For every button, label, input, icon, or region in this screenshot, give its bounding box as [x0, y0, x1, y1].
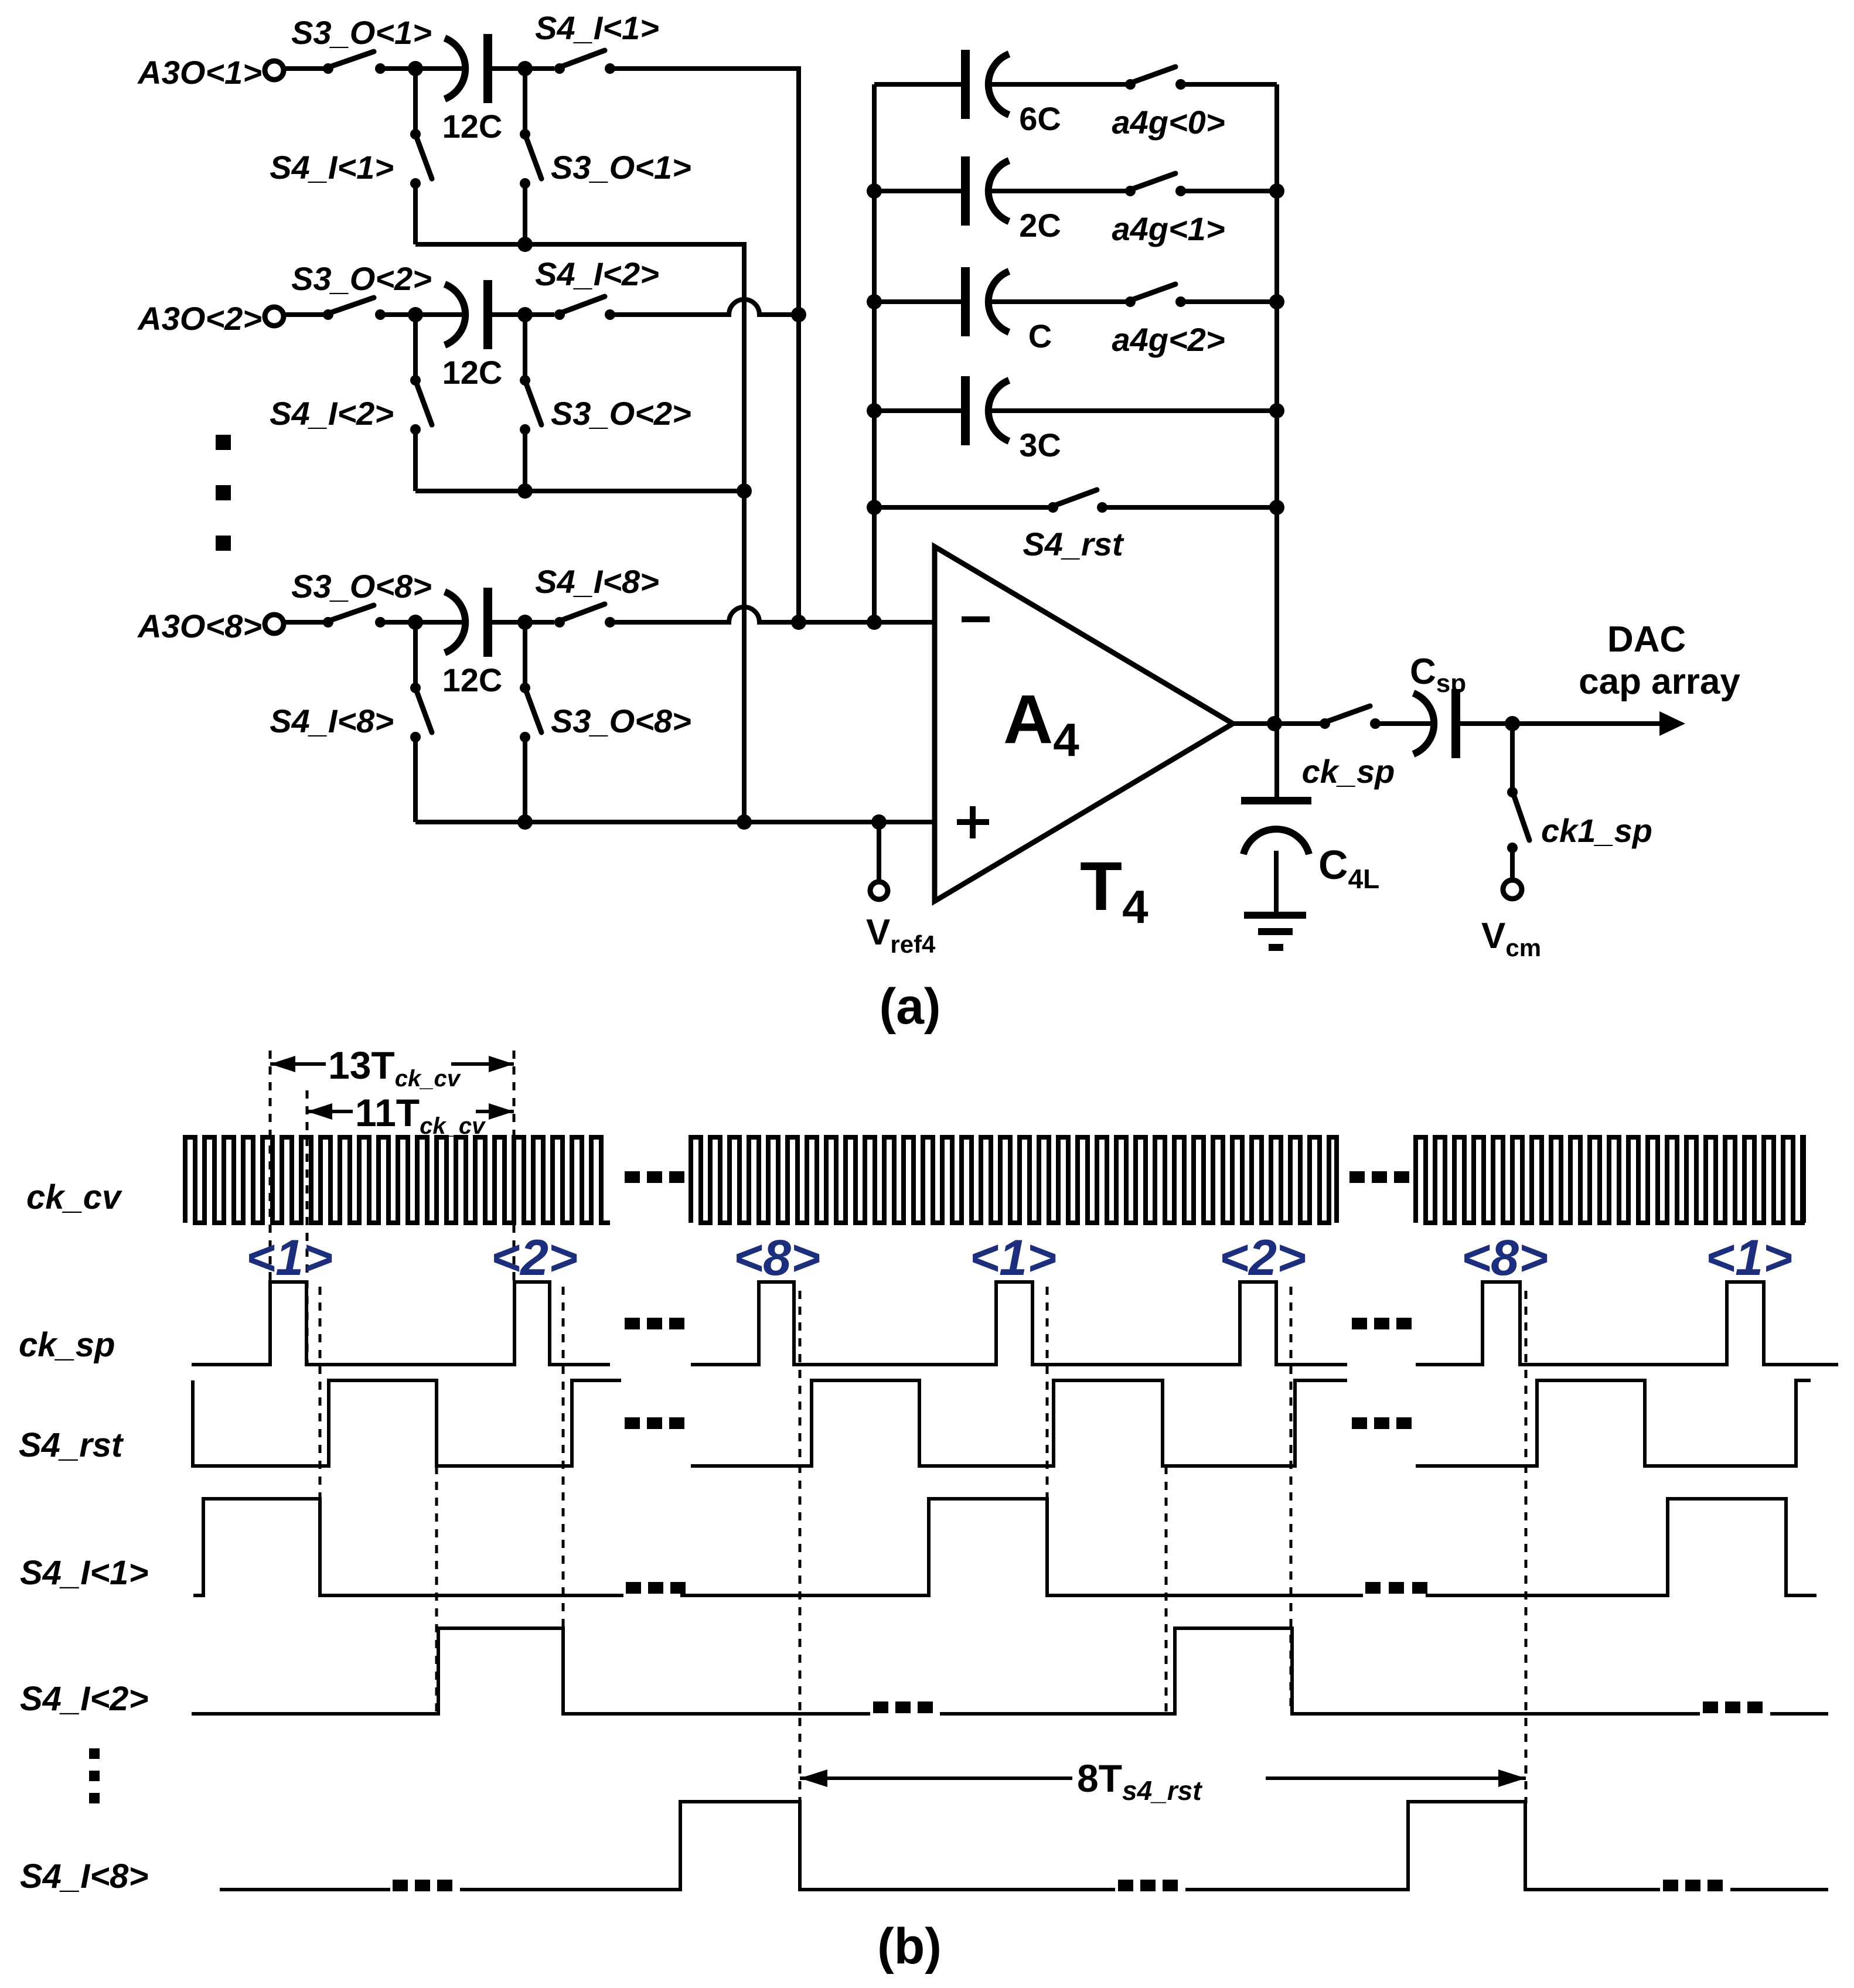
- wire left shunt to bottom: [413, 737, 418, 822]
- wire cap to switch a4g&lt;1&gt;: [991, 189, 1130, 193]
- wire block1 output to vertical bus x=1363 down to inverting bus: [610, 69, 799, 622]
- junction block2 bottom joins x=1270: [737, 483, 752, 499]
- junction bus/block2 output: [791, 307, 806, 322]
- svg-text:ck_sp: ck_sp: [19, 1326, 115, 1364]
- wire switch to Csp: [1375, 721, 1431, 726]
- junction left bus row C: [867, 294, 882, 309]
- svg-text:6C: 6C: [1019, 100, 1061, 137]
- ellipsis ck_cv gap 1: [625, 1171, 684, 1183]
- svg-text:a4g<2>: a4g<2>: [1112, 321, 1225, 358]
- wire S4_I<8> waveform seg3: [1185, 1802, 1660, 1890]
- op-amp A4 (integrator T4): [935, 547, 1233, 933]
- junction right bus row 2C: [1269, 183, 1284, 199]
- dimension arrow 13T_ck_cv: [270, 1044, 514, 1092]
- svg-text:ck1_sp: ck1_sp: [1541, 812, 1652, 849]
- svg-text:S4_I<2>: S4_I<2>: [270, 395, 394, 432]
- svg-text:ck_cv: ck_cv: [26, 1178, 122, 1216]
- ellipsis S4_I<2> gap 2: [1703, 1701, 1763, 1713]
- wire S4_rst waveform seg1: [193, 1380, 621, 1466]
- switch S3_O<2> (series, top): [323, 298, 386, 320]
- capacitor 6C row wire (left): [874, 82, 965, 87]
- wire cap to switch a4g&lt;2&gt;: [991, 299, 1130, 304]
- switch S3_O<2> (shunt right): [520, 375, 541, 435]
- node junction (right plate node): [517, 61, 533, 76]
- switch S4_I<8> (shunt left): [410, 683, 432, 742]
- junction output / right bus: [1267, 716, 1282, 731]
- wire dashed guide x=745: [435, 1466, 438, 1714]
- capacitor 12C: [442, 588, 503, 698]
- svg-text:S3_O<2>: S3_O<2>: [291, 260, 432, 297]
- wire cap-bank left bus: [872, 84, 877, 622]
- svg-text:A3O<8>: A3O<8>: [137, 608, 262, 645]
- wire left shunt branch: [413, 69, 418, 134]
- svg-text:<8>: <8>: [1461, 1230, 1548, 1286]
- node A3O<1> input terminal: [137, 54, 284, 91]
- switch S4_rst: [1048, 490, 1107, 513]
- wire S4_I<2> waveform seg1: [192, 1628, 870, 1714]
- wire Csp to output node: [1460, 721, 1512, 726]
- svg-text:S3_O<8>: S3_O<8>: [551, 703, 691, 739]
- capacitor 2C: [961, 156, 1061, 244]
- label DAC cap array: [1579, 619, 1740, 702]
- wire dashed guide x=524: [306, 1090, 309, 1365]
- ellipsis ck_sp gap 2: [1352, 1318, 1412, 1329]
- junction right bus row C: [1269, 294, 1284, 309]
- wire block1 bottom to vertical x=1270 down to non-inverting wire: [415, 244, 744, 822]
- dimension arrow 11T_ck_cv: [307, 1091, 514, 1139]
- wire S4_I<1> waveform seg2: [680, 1499, 1363, 1595]
- wire switch to node1: [380, 66, 463, 71]
- ellipsis S4_I<2> gap 1: [873, 1701, 933, 1713]
- ellipsis ck_cv gap 2: [1349, 1171, 1409, 1183]
- junction right shunt / bottom wire: [517, 237, 533, 252]
- switch a4g&lt;1&gt;: [1125, 173, 1186, 196]
- junction bus x=1363 / inverting bus: [791, 615, 806, 630]
- wire dashed guide x=1365: [799, 1291, 802, 1803]
- wire S4_rst waveform seg3: [1416, 1380, 1811, 1466]
- switch S3_O<1> (series, top): [323, 52, 386, 74]
- wire dashed guide x=877: [513, 1051, 516, 1282]
- svg-text:S4_I<8>: S4_I<8>: [20, 1857, 148, 1895]
- wire left shunt to bottom: [413, 183, 418, 244]
- svg-text:S3_O<8>: S3_O<8>: [291, 568, 432, 605]
- wire left shunt branch: [413, 315, 418, 380]
- wire cap to switch a4g&lt;0&gt;: [991, 82, 1130, 87]
- wire ck_cv clock waveform band 3: [1416, 1137, 1804, 1223]
- ellipsis vertical dots between S4_I<2> and S4_I<8>: [89, 1748, 100, 1803]
- capacitor 3C: [961, 376, 1061, 463]
- node A3O<8> input terminal: [137, 608, 284, 645]
- switch S4_I<1> (shunt left): [410, 129, 432, 189]
- wire switch to node1: [380, 620, 463, 625]
- svg-text:S3_O<2>: S3_O<2>: [551, 395, 691, 432]
- svg-text:12C: 12C: [442, 108, 503, 145]
- switch S4_I<1> (series, top): [554, 50, 615, 74]
- wire switch to right bus: [1181, 299, 1277, 304]
- capacitor C row wire (left): [874, 299, 965, 304]
- wire ck_cv clock waveform band 2: [691, 1137, 1337, 1223]
- wire ck_sp waveform seg2: [691, 1282, 1347, 1365]
- svg-text:ck_sp: ck_sp: [1302, 753, 1395, 790]
- wire cap to node2: [492, 620, 554, 625]
- svg-text:DAC: DAC: [1607, 619, 1686, 660]
- svg-text:S4_I<2>: S4_I<2>: [20, 1680, 148, 1718]
- junction right bus S4_rst row: [1269, 500, 1284, 515]
- wire dashed guide x=2203: [1290, 1287, 1293, 1714]
- capacitor 6C: [961, 50, 1061, 137]
- capacitor C: [961, 267, 1052, 354]
- wire left shunt branch: [413, 622, 418, 688]
- svg-text:12C: 12C: [442, 354, 503, 391]
- capacitor 2C row wire (left): [874, 189, 965, 193]
- wire ck_cv clock waveform band 1: [185, 1137, 610, 1223]
- svg-text:S4_I<1>: S4_I<1>: [535, 9, 659, 46]
- wire S4_I<1> waveform seg1: [193, 1499, 623, 1595]
- node junction (left plate node): [408, 615, 423, 630]
- switch ck1_sp: [1507, 787, 1529, 853]
- svg-text:S4_I<8>: S4_I<8>: [270, 703, 394, 739]
- node A3O<2> input terminal: [137, 300, 284, 337]
- wire ck_sp waveform seg3: [1416, 1282, 1838, 1365]
- junction left bus row 3C: [867, 403, 882, 418]
- wire S4_rst row (left): [874, 505, 1053, 510]
- switch S4_I<2> (shunt left): [410, 375, 432, 435]
- svg-text:<1>: <1>: [1706, 1230, 1792, 1286]
- dimension arrow 8T_s4_rst: [800, 1757, 1526, 1806]
- svg-text:12C: 12C: [442, 661, 503, 698]
- capacitor C4L: [1241, 797, 1379, 912]
- wire left shunt to bottom: [413, 429, 418, 491]
- switch S3_O<1> (shunt right): [520, 129, 541, 189]
- wire dashed guide x=1787: [1046, 1287, 1049, 1595]
- ellipsis S4_I<8> gap 3: [1663, 1880, 1723, 1891]
- node junction (left plate node): [408, 61, 423, 76]
- svg-text:S4_I<1>: S4_I<1>: [20, 1554, 148, 1592]
- svg-text:S4_I<1>: S4_I<1>: [270, 149, 394, 186]
- wire to DAC cap array (arrow): [1512, 711, 1685, 736]
- svg-text:a4g<1>: a4g<1>: [1112, 210, 1225, 247]
- wire switch to right bus: [1181, 82, 1277, 87]
- node junction (left plate node): [408, 307, 423, 322]
- switch a4g&lt;2&gt;: [1125, 284, 1186, 307]
- wire dashed guide x=961: [562, 1287, 565, 1714]
- wire right shunt branch: [523, 622, 527, 688]
- wire right shunt branch: [523, 315, 527, 380]
- wire right shunt branch: [523, 69, 527, 134]
- svg-text:<1>: <1>: [970, 1230, 1056, 1286]
- wire S4_I<2> waveform seg3: [1770, 1712, 1828, 1716]
- wire non-inverting input (block8 bottom): [415, 820, 935, 824]
- svg-text:A3O<2>: A3O<2>: [137, 300, 262, 337]
- wire cap to right bus: [991, 408, 1277, 413]
- wire S4_I<8> waveform seg4: [1730, 1888, 1828, 1891]
- svg-text:(a): (a): [879, 978, 940, 1035]
- wire dashed guide x=2604: [1525, 1291, 1528, 1803]
- wire S4_I<1> waveform seg3: [1426, 1499, 1816, 1595]
- switch S4_I<8> (series, top): [554, 604, 615, 628]
- switch S3_O<8> (shunt right): [520, 683, 541, 742]
- wire S4_I<2> waveform seg2: [940, 1628, 1700, 1714]
- svg-text:S3_O<1>: S3_O<1>: [291, 14, 432, 51]
- junction right shunt / bottom wire: [517, 814, 533, 830]
- wire switch to right bus: [1181, 189, 1277, 193]
- svg-text:<2>: <2>: [1219, 1230, 1306, 1286]
- wire switch to node1: [380, 312, 463, 317]
- junction x=1270 / non-inverting wire: [737, 814, 752, 830]
- node DAC output junction: [1505, 716, 1520, 731]
- wire block2 output with hop over x=1270: [610, 299, 799, 315]
- ellipsis dots between block2 and block8: [216, 435, 231, 551]
- wire block2 bottom: [415, 489, 744, 493]
- svg-text:2C: 2C: [1019, 207, 1061, 244]
- ellipsis S4_I<8> gap 1: [393, 1880, 452, 1891]
- ground: [1244, 912, 1306, 951]
- capacitor 12C: [442, 280, 503, 391]
- svg-text:a4g<0>: a4g<0>: [1112, 104, 1225, 141]
- svg-text:S3_O<1>: S3_O<1>: [551, 149, 691, 186]
- junction cap-bank left bus / inverting bus: [867, 615, 882, 630]
- svg-text:S4_rst: S4_rst: [1023, 526, 1124, 562]
- svg-text:<2>: <2>: [491, 1230, 578, 1286]
- node Vref4 source terminal: [866, 822, 936, 958]
- wire dashed guide x=546: [319, 1287, 322, 1595]
- ellipsis S4_rst gap 1: [625, 1417, 684, 1429]
- switch a4g&lt;0&gt;: [1125, 67, 1186, 90]
- capacitor 12C: [442, 34, 503, 145]
- wire cap-bank right bus (down to C4L top plate): [1274, 84, 1279, 797]
- svg-text:A3O<1>: A3O<1>: [137, 54, 262, 91]
- wire dashed guide x=1990: [1165, 1466, 1168, 1714]
- svg-text:<8>: <8>: [734, 1230, 820, 1286]
- svg-text:(b): (b): [877, 1918, 942, 1975]
- svg-text:S4_rst: S4_rst: [19, 1426, 124, 1464]
- svg-text:S4_I<2>: S4_I<2>: [535, 255, 659, 292]
- ellipsis ck_sp gap 1: [625, 1318, 684, 1329]
- junction left bus S4_rst row: [867, 500, 882, 515]
- junction Vref4 stub: [871, 814, 887, 830]
- wire cap to node2: [492, 66, 554, 71]
- capacitor Csp: [1410, 652, 1466, 758]
- switch S4_I<2> (series, top): [554, 296, 615, 320]
- wire output node down to ck1_sp: [1510, 724, 1515, 790]
- node Vcm terminal: [1481, 848, 1541, 961]
- switch S3_O<8> (series, top): [323, 605, 386, 628]
- ellipsis S4_I<8> gap 2: [1118, 1880, 1178, 1891]
- svg-text:C: C: [1028, 318, 1052, 354]
- wire S4_I<8> waveform seg1: [220, 1888, 390, 1891]
- ellipsis S4_I<1> gap 1: [626, 1582, 686, 1594]
- junction right shunt / bottom wire: [517, 483, 533, 499]
- svg-text:S4_I<8>: S4_I<8>: [535, 563, 659, 600]
- svg-text:<1>: <1>: [246, 1230, 333, 1286]
- node junction (right plate node): [517, 615, 533, 630]
- wire right shunt to bottom: [523, 429, 527, 491]
- wire S4_I<8> waveform seg2: [460, 1802, 1115, 1890]
- ellipsis S4_I<1> gap 2: [1365, 1582, 1427, 1594]
- wire dashed guide x=461: [269, 1051, 272, 1282]
- switch ck_sp: [1320, 706, 1381, 729]
- svg-text:cap array: cap array: [1579, 661, 1740, 702]
- wire right shunt to bottom: [523, 737, 527, 822]
- wire A3O<8> to switch S3_O<8>: [284, 620, 326, 625]
- wire A3O<2> to switch S3_O<2>: [284, 312, 326, 317]
- node junction (right plate node): [517, 307, 533, 322]
- wire A3O<1> to switch S3_O<1>: [284, 66, 326, 71]
- wire S4_rst waveform seg2: [691, 1380, 1347, 1466]
- ellipsis S4_rst gap 2: [1352, 1417, 1412, 1429]
- svg-text:3C: 3C: [1019, 427, 1061, 463]
- capacitor 3C row wire (left): [874, 408, 965, 413]
- wire op-amp output: [1233, 721, 1325, 726]
- junction right bus row 3C: [1269, 403, 1284, 418]
- wire cap to node2: [492, 312, 554, 317]
- wire S4_rst switch to right bus: [1102, 505, 1277, 510]
- wire right shunt to bottom: [523, 183, 527, 244]
- wire inverting input bus (block8 output) with hop over x=1270: [610, 607, 935, 622]
- wire ck_sp waveform seg1: [192, 1282, 610, 1365]
- junction left bus row 2C: [867, 183, 882, 199]
